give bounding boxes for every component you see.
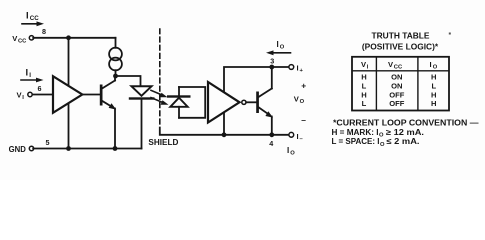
shield dashed line [159, 29, 161, 125]
footnote line 2 [332, 128, 425, 139]
svg-text:H: H [431, 90, 436, 99]
svg-text:I: I [297, 64, 299, 73]
arrow ICC [22, 21, 44, 26]
junction GND emitter [113, 146, 118, 151]
photodiode D2 [167, 87, 191, 118]
svg-text:3: 3 [270, 57, 274, 66]
label I+ [297, 64, 304, 75]
svg-text:I: I [297, 132, 299, 141]
wire input [32, 94, 53, 96]
svg-text:O: O [300, 99, 305, 105]
terminal pin 3 I+ [289, 65, 294, 70]
svg-text:H: H [431, 99, 436, 108]
junction Vcc/bias [66, 35, 71, 40]
light arrow 2 [151, 98, 169, 105]
svg-text:I: I [287, 146, 289, 155]
svg-text:H: H [361, 90, 366, 99]
wire to LED [116, 76, 141, 86]
wire bias vertical [68, 38, 70, 149]
junction pin 3 [269, 65, 274, 70]
label IO top [277, 40, 285, 51]
svg-text:OFF: OFF [389, 99, 405, 108]
svg-text:6: 6 [38, 84, 42, 93]
wire U2 output to Q2 base [246, 101, 256, 103]
photodiode D2 loop [179, 87, 205, 118]
svg-text:I: I [430, 60, 432, 69]
svg-text:+: + [301, 81, 306, 91]
truth table header IO [430, 60, 438, 71]
wire receiver top rail [224, 67, 289, 135]
label II [26, 66, 32, 79]
wire U1 output to Q1 base [82, 94, 100, 96]
svg-text:I: I [26, 9, 29, 20]
label VO [294, 95, 305, 106]
label I- [297, 132, 304, 143]
svg-text:I: I [277, 40, 279, 49]
arrow IO top [266, 50, 291, 55]
op-amp U1 input buffer [53, 76, 82, 113]
svg-text:CC: CC [30, 15, 39, 22]
truth table box [352, 57, 449, 111]
svg-text:O: O [280, 45, 285, 51]
junction pin 4 [269, 132, 274, 137]
label VCC [12, 34, 27, 45]
svg-text:H = MARK: I: H = MARK: I [332, 128, 379, 137]
terminal pin 8 VCC [29, 36, 33, 40]
svg-text:OFF: OFF [389, 90, 405, 99]
transistor Q2 [256, 67, 273, 135]
terminal pin 4 I- [289, 132, 294, 137]
label ICC [26, 9, 39, 22]
junction current source output [113, 74, 118, 79]
svg-text:O: O [290, 151, 295, 157]
svg-text:ON: ON [391, 72, 402, 81]
svg-text:I: I [26, 66, 29, 77]
svg-text:H: H [361, 72, 366, 81]
svg-text:O: O [380, 142, 385, 148]
svg-text:L = SPACE: I: L = SPACE: I [332, 137, 380, 146]
wire shield corner and bottom rail [160, 128, 289, 135]
truth table header VI [361, 60, 369, 71]
svg-text:I: I [29, 72, 31, 79]
svg-text:CC: CC [394, 65, 403, 71]
truth table header VCC [388, 60, 403, 71]
terminal pin 5 GND [29, 146, 33, 150]
op-amp U2 receiver amplifier [208, 82, 240, 123]
svg-text:ON: ON [391, 81, 402, 90]
svg-text:H: H [431, 72, 436, 81]
svg-text:L: L [362, 81, 367, 90]
svg-text:(POSITIVE LOGIC)*: (POSITIVE LOGIC)* [362, 41, 439, 51]
svg-text:–: – [301, 115, 306, 125]
footnote line 3 [332, 137, 420, 148]
wire Vcc rail [33, 37, 115, 39]
svg-text:L: L [362, 99, 367, 108]
label VI [17, 91, 25, 102]
svg-text:≤ 2 mA.: ≤ 2 mA. [387, 137, 420, 146]
inverter bubble U2 [242, 100, 246, 104]
speck artifact [449, 33, 451, 35]
svg-text:GND: GND [9, 145, 27, 154]
svg-text:SHIELD: SHIELD [148, 138, 178, 147]
junction receiver bias bottom [222, 132, 227, 137]
wire GND rail [33, 148, 141, 150]
svg-text:L: L [431, 81, 436, 90]
terminal pin 6 VI [28, 92, 32, 96]
arrow II [21, 78, 44, 83]
svg-text:4: 4 [269, 139, 273, 148]
truth table rows [361, 72, 436, 108]
svg-text:≥ 12 mA.: ≥ 12 mA. [386, 128, 424, 137]
light arrow 1 [151, 90, 168, 97]
current source CS1 [109, 38, 122, 76]
svg-text:O: O [433, 65, 438, 71]
LED D1 [129, 86, 155, 148]
transistor Q1 [100, 76, 116, 149]
junction GND bias [66, 146, 71, 151]
svg-text:TRUTH TABLE: TRUTH TABLE [372, 31, 430, 41]
svg-text:*CURRENT LOOP CONVENTION —: *CURRENT LOOP CONVENTION — [333, 119, 479, 128]
label IO bottom [287, 146, 295, 157]
svg-text:CC: CC [18, 38, 27, 44]
svg-text:8: 8 [42, 27, 46, 36]
svg-text:5: 5 [46, 138, 50, 147]
svg-text:O: O [379, 133, 384, 139]
